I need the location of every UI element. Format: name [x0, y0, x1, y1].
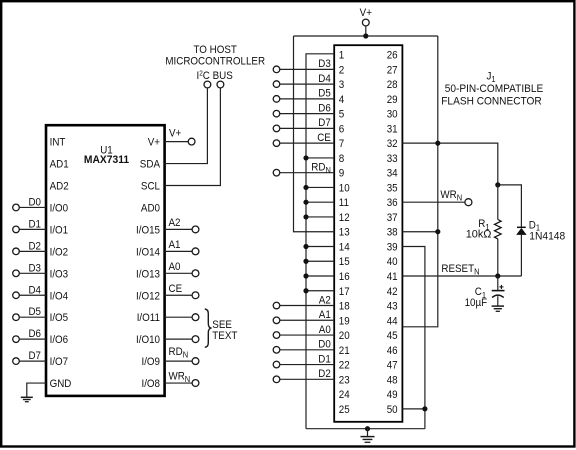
node A0 connector terminal pin 20: [273, 324, 334, 339]
svg-text:9: 9: [339, 168, 345, 180]
svg-text:D7: D7: [318, 117, 331, 129]
node CE terminal: [165, 283, 199, 299]
svg-text:SCL: SCL: [141, 181, 160, 193]
svg-text:21: 21: [339, 345, 350, 357]
svg-text:A0: A0: [169, 261, 181, 273]
wire pin 50: [402, 408, 425, 410]
svg-text:I/O12: I/O12: [136, 290, 160, 302]
junction bus pin 11: [303, 200, 308, 205]
node D5 connector terminal pin 4: [273, 88, 334, 102]
junction bus pin 10: [303, 185, 308, 190]
svg-text:CE: CE: [317, 132, 331, 144]
svg-text:A1: A1: [319, 309, 331, 321]
svg-text:41: 41: [387, 271, 398, 283]
junction V+ stem: [363, 33, 368, 38]
wire ground bus stub pin 8: [306, 157, 334, 159]
svg-text:45: 45: [387, 330, 398, 342]
svg-text:15: 15: [339, 256, 350, 268]
wire RESETN from pin 41: [402, 275, 521, 277]
svg-text:I/O6: I/O6: [50, 334, 69, 346]
svg-text:TO HOST: TO HOST: [194, 44, 237, 56]
svg-text:I/O15: I/O15: [136, 224, 160, 236]
node I2C SCL terminal: [217, 81, 224, 88]
wire ground bus stub pin 15: [306, 260, 334, 262]
svg-text:7: 7: [339, 138, 345, 150]
node CE connector terminal pin 7: [273, 132, 334, 147]
svg-text:V+: V+: [148, 137, 161, 149]
wire branch to D1: [498, 185, 522, 227]
svg-text:18: 18: [339, 301, 350, 313]
node RDN terminal: [165, 346, 199, 365]
node V+ terminal of U1: [165, 127, 195, 145]
wire SDA to I2C bus: [165, 88, 208, 164]
wire ground bus stub pin 16: [306, 275, 334, 277]
svg-text:24: 24: [339, 389, 350, 401]
svg-text:D3: D3: [318, 58, 331, 70]
wire ground bus stub pin 11: [306, 201, 334, 203]
wire V+ left drop to pin 13: [294, 36, 335, 232]
node D1 terminal: [13, 218, 46, 232]
svg-text:11: 11: [339, 197, 349, 209]
junction R1 C1 RESETN: [495, 273, 500, 278]
IC U1 MAX7311 body: [46, 125, 165, 396]
svg-text:TEXT: TEXT: [212, 330, 237, 342]
junction R1 D1 branch: [495, 182, 500, 187]
svg-text:I2C BUS: I2C BUS: [197, 69, 234, 83]
svg-text:37: 37: [387, 212, 398, 224]
wire SCL to I2C bus: [165, 88, 221, 186]
wire pin 1 to ground bus: [306, 54, 334, 429]
wire pin 38 to V+ drop: [402, 231, 437, 233]
wire V+ top rail: [294, 35, 438, 37]
svg-text:D0: D0: [29, 196, 42, 208]
svg-text:17: 17: [339, 286, 350, 298]
svg-text:39: 39: [387, 241, 398, 253]
diode D1 1N4148: [517, 219, 566, 276]
node WRN terminal: [165, 370, 199, 386]
svg-text:33: 33: [387, 153, 398, 165]
svg-text:I/O10: I/O10: [136, 334, 160, 346]
junction bus pin 17: [303, 288, 308, 293]
svg-text:I/O0: I/O0: [50, 202, 69, 214]
svg-text:49: 49: [387, 389, 398, 401]
node A2 connector terminal pin 18: [273, 294, 334, 309]
svg-text:V+: V+: [169, 127, 182, 139]
svg-text:31: 31: [387, 123, 398, 135]
svg-text:I/O13: I/O13: [136, 268, 160, 280]
wire V+ right drop to pin 44: [402, 36, 437, 327]
svg-text:50-PIN-COMPATIBLE: 50-PIN-COMPATIBLE: [445, 83, 544, 95]
svg-text:D4: D4: [318, 73, 331, 85]
svg-text:D2: D2: [29, 240, 42, 252]
svg-text:8: 8: [339, 153, 345, 165]
node D2 connector terminal pin 23: [273, 368, 334, 383]
wire ground bus stub pin 14: [306, 245, 334, 247]
node A2 terminal: [165, 217, 199, 233]
svg-text:I/O14: I/O14: [136, 246, 160, 258]
svg-text:28: 28: [387, 79, 398, 91]
svg-text:38: 38: [387, 227, 398, 239]
svg-text:10µF: 10µF: [465, 297, 488, 309]
junction bus pin 12: [303, 214, 308, 219]
node V+ top terminal: [360, 7, 373, 36]
svg-text:A2: A2: [319, 294, 331, 306]
svg-text:47: 47: [387, 360, 398, 372]
svg-text:48: 48: [387, 374, 398, 386]
node RDN connector terminal pin 9: [273, 161, 334, 176]
wire WRN from pin 36: [402, 201, 465, 203]
svg-text:D1: D1: [318, 353, 331, 365]
svg-text:D5: D5: [318, 88, 331, 100]
node D6 connector terminal pin 5: [273, 102, 334, 116]
svg-text:23: 23: [339, 374, 350, 386]
node D4 terminal: [13, 284, 46, 298]
svg-text:D3: D3: [29, 262, 42, 274]
node D4 connector terminal pin 3: [273, 73, 334, 88]
label J1 50-PIN-COMPATIBLE FLASH CONNECTOR: [441, 70, 543, 107]
pin numbers 1-25: [339, 50, 350, 416]
svg-text:30: 30: [387, 109, 398, 121]
label SEE TEXT with brace: [205, 309, 238, 347]
capacitor C1 10uF: [465, 276, 505, 309]
svg-text:D6: D6: [29, 328, 42, 340]
svg-text:43: 43: [387, 301, 398, 313]
svg-text:V+: V+: [360, 7, 373, 19]
wire ground bus stub pin 17: [306, 290, 334, 292]
svg-text:INT: INT: [50, 137, 66, 149]
svg-text:D4: D4: [29, 284, 42, 296]
svg-text:MAX7311: MAX7311: [84, 154, 129, 166]
svg-text:D6: D6: [318, 102, 331, 114]
svg-text:1N4148: 1N4148: [529, 230, 565, 242]
connector J1 body: [334, 45, 402, 422]
svg-text:44: 44: [387, 315, 398, 327]
wire bottom ground rail: [306, 428, 425, 430]
svg-text:12: 12: [339, 212, 350, 224]
svg-text:1: 1: [339, 50, 345, 62]
U1 pin labels left column: [50, 137, 72, 390]
svg-text:SDA: SDA: [140, 159, 161, 171]
svg-text:AD0: AD0: [141, 202, 160, 214]
wire pin 32 to R1 top: [402, 143, 497, 185]
svg-text:AD1: AD1: [50, 159, 69, 171]
svg-text:46: 46: [387, 345, 398, 357]
svg-text:2: 2: [339, 64, 345, 76]
svg-text:RESETN: RESETN: [441, 263, 479, 276]
svg-text:I/O3: I/O3: [50, 268, 69, 280]
node D1 connector terminal pin 22: [273, 353, 334, 368]
node WRN terminal right: [465, 199, 472, 206]
svg-text:13: 13: [339, 227, 350, 239]
svg-text:A1: A1: [169, 239, 181, 251]
wire pin 39 to ground rail: [402, 246, 425, 428]
node A1 terminal: [165, 239, 199, 255]
U1 pin labels right column: [136, 137, 160, 390]
svg-text:I/O4: I/O4: [50, 290, 69, 302]
node D0 connector terminal pin 21: [273, 339, 334, 354]
svg-text:D5: D5: [29, 306, 42, 318]
junction V+ pin 38: [435, 229, 440, 234]
svg-text:50: 50: [387, 404, 398, 416]
svg-text:I/O11: I/O11: [137, 312, 160, 324]
svg-text:5: 5: [339, 109, 345, 121]
node D2 terminal: [13, 240, 46, 254]
svg-text:6: 6: [339, 123, 345, 135]
node D0 terminal: [13, 196, 46, 210]
svg-text:MICROCONTROLLER: MICROCONTROLLER: [165, 55, 265, 67]
ground symbol J1 bottom: [367, 429, 369, 437]
junction bus pin 15: [303, 259, 308, 264]
node D5 terminal: [13, 306, 46, 320]
svg-text:34: 34: [387, 168, 398, 180]
junction bus pin 16: [303, 273, 308, 278]
svg-text:10kΩ: 10kΩ: [466, 228, 492, 240]
junction bus pin 14: [303, 244, 308, 249]
svg-text:19: 19: [339, 315, 350, 327]
resistor R1: [466, 185, 501, 276]
svg-text:A0: A0: [319, 324, 331, 336]
node D7 connector terminal pin 6: [273, 117, 334, 132]
pin numbers 26-50: [387, 50, 398, 416]
label TO HOST MICROCONTROLLER I2C BUS: [165, 44, 265, 82]
svg-text:14: 14: [339, 241, 350, 253]
junction ground symbol J1: [365, 426, 370, 431]
svg-text:D0: D0: [318, 339, 331, 351]
svg-text:27: 27: [387, 64, 398, 76]
svg-text:36: 36: [387, 197, 398, 209]
wire ground bus stub pin 10: [306, 186, 334, 188]
svg-text:I/O5: I/O5: [50, 312, 69, 324]
node I2C SDA terminal: [204, 81, 211, 88]
svg-text:D1: D1: [29, 218, 42, 230]
svg-text:AD2: AD2: [50, 181, 69, 193]
svg-text:I/O9: I/O9: [142, 356, 161, 368]
svg-text:22: 22: [339, 360, 350, 372]
svg-text:40: 40: [387, 256, 398, 268]
node D3 terminal: [13, 262, 46, 276]
svg-text:GND: GND: [50, 378, 72, 390]
svg-text:42: 42: [387, 286, 398, 298]
svg-text:25: 25: [339, 404, 350, 416]
svg-text:32: 32: [387, 138, 398, 150]
svg-text:4: 4: [339, 94, 345, 106]
svg-text:20: 20: [339, 330, 350, 342]
node A0 terminal: [165, 261, 199, 277]
svg-text:A2: A2: [169, 217, 181, 229]
svg-text:I/O2: I/O2: [50, 246, 69, 258]
svg-text:26: 26: [387, 50, 398, 62]
svg-text:16: 16: [339, 271, 350, 283]
ground symbol U1: [21, 397, 33, 401]
svg-text:35: 35: [387, 182, 398, 194]
junction bus pin 8: [303, 155, 308, 160]
svg-text:FLASH CONNECTOR: FLASH CONNECTOR: [441, 95, 542, 107]
node D7 terminal: [13, 350, 46, 364]
svg-text:CE: CE: [169, 283, 183, 295]
svg-text:3: 3: [339, 79, 345, 91]
svg-text:D2: D2: [318, 368, 331, 380]
node I/O10 terminal: [165, 336, 199, 343]
svg-text:D7: D7: [29, 350, 42, 362]
junction pin 50: [422, 406, 427, 411]
node A1 connector terminal pin 19: [273, 309, 334, 324]
node I/O11 terminal: [165, 314, 199, 321]
wire ground bus stub pin 12: [306, 216, 334, 218]
node D3 connector terminal pin 2: [273, 58, 334, 72]
node D6 terminal: [13, 328, 46, 342]
svg-text:I/O7: I/O7: [50, 356, 69, 368]
svg-text:I/O1: I/O1: [50, 224, 69, 236]
junction V+ pin 32: [435, 141, 440, 146]
ground symbol C1: [492, 306, 504, 311]
svg-text:10: 10: [339, 182, 350, 194]
svg-text:29: 29: [387, 94, 398, 106]
svg-text:I/O8: I/O8: [142, 378, 161, 390]
wire U1 GND: [27, 383, 46, 397]
